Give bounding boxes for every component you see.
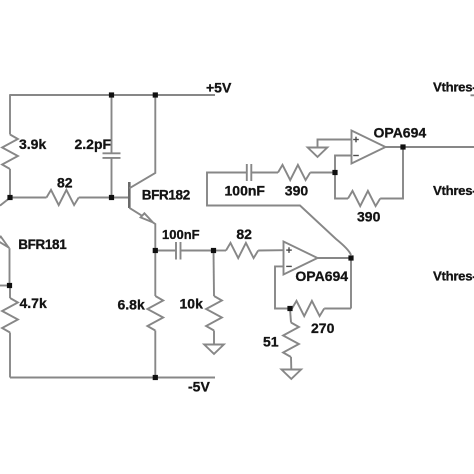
svg-text:10k: 10k [180,296,204,312]
capacitor 2.2pF [111,95,113,153]
resistor 10k [213,251,216,297]
wire rail to 3.9k [9,94,11,134]
wire U2 inverting input [275,266,290,308]
resistor 390 feedback of U1 [335,173,348,199]
resistor 3.9k [2,135,18,170]
wire U1 output to right edge [386,146,474,148]
wire feedback to output node [350,258,352,309]
svg-text:51: 51 [263,334,279,350]
op-amp U1 OPA694 [352,125,427,164]
svg-text:OPA694: OPA694 [295,268,348,284]
svg-text:2.2pF: 2.2pF [75,136,112,152]
svg-text:6.8k: 6.8k [118,297,145,313]
svg-text:100nF: 100nF [162,227,200,242]
svg-text:BFR182: BFR182 [142,187,190,202]
svg-text:Vthres-: Vthres- [433,268,474,283]
svg-text:390: 390 [357,209,381,225]
resistor 51 [290,309,291,323]
svg-text:-5V: -5V [188,379,210,395]
svg-text:390: 390 [285,183,309,199]
svg-text:Vthres-: Vthres- [433,80,474,95]
svg-text:BFR181: BFR181 [18,237,67,252]
resistor 82 [10,197,47,199]
resistor 4.7k [9,286,11,299]
wire base BFR182 [112,197,129,199]
wire -5V rail [10,377,215,379]
svg-text:270: 270 [311,320,335,336]
wire left from BFR181 emitter node [0,285,10,287]
resistor 390 series [278,165,310,180]
wire U2 output [318,257,352,259]
svg-text:82: 82 [57,175,73,191]
capacitor 100nF [155,250,176,252]
resistor 6.8k [154,251,156,297]
ground under 10k [204,345,224,354]
junction node dots [7,92,406,380]
ground under 51 [282,370,302,379]
svg-text:OPA694: OPA694 [374,125,427,141]
capacitor 100nF second [246,164,248,181]
wire U2 output to first stage input chain [207,173,351,256]
transistor Q BFR182 [129,95,190,251]
svg-text:82: 82 [236,226,252,242]
svg-text:4.7k: 4.7k [20,295,47,311]
op-amp U2 OPA694 [284,242,349,284]
svg-text:+5V: +5V [206,80,232,96]
transistor Q BFR181 (partially cropped) [0,198,67,286]
wire +5V rail [10,94,215,96]
wire to U1 inverting input [335,156,352,173]
svg-text:100nF: 100nF [225,183,266,199]
wire stub right edge [471,94,474,96]
svg-text:Vthres-: Vthres- [433,183,474,198]
resistor 270 feedback [292,301,324,316]
svg-text:3.9k: 3.9k [19,136,46,152]
resistor 82 second [214,250,227,252]
wire 3.9k to node [9,169,11,198]
ground at U1 non-inverting input [318,140,352,148]
